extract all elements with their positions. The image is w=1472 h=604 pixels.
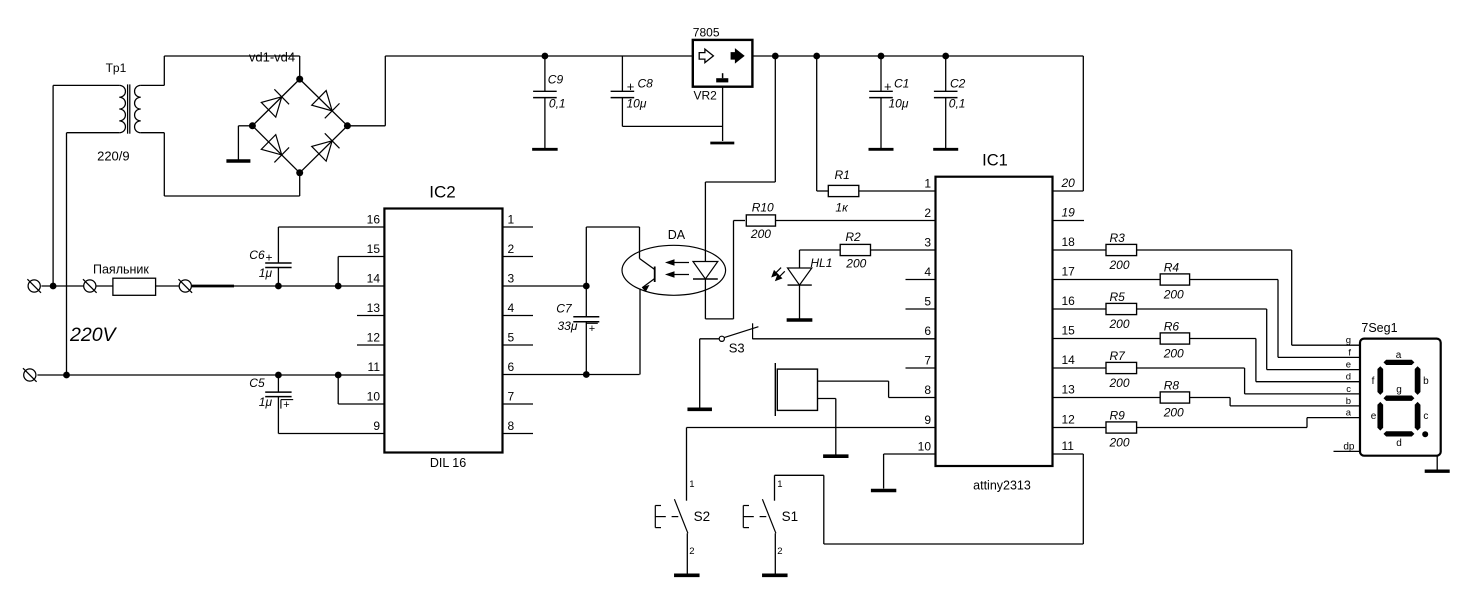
svg-text:15: 15 [1062,324,1076,338]
svg-text:220V: 220V [69,324,118,346]
svg-text:R4: R4 [1164,261,1180,275]
svg-text:14: 14 [1062,353,1076,367]
svg-text:g: g [1396,385,1402,396]
svg-text:c: c [1346,384,1351,395]
svg-text:7Seg1: 7Seg1 [1361,321,1397,335]
svg-text:200: 200 [1109,317,1130,331]
svg-text:1: 1 [689,479,694,490]
svg-text:19: 19 [1062,206,1076,220]
svg-text:220/9: 220/9 [97,149,130,164]
svg-text:200: 200 [845,257,866,271]
svg-text:6: 6 [924,324,931,338]
svg-text:200: 200 [1163,347,1184,361]
svg-text:12: 12 [1062,413,1076,427]
svg-text:3: 3 [924,236,931,250]
svg-text:R3: R3 [1110,231,1126,245]
svg-text:11: 11 [1062,439,1075,453]
svg-text:R7: R7 [1110,349,1127,363]
svg-text:C7: C7 [556,302,573,316]
svg-text:c: c [1423,411,1428,422]
svg-text:+: + [283,399,289,411]
svg-text:2: 2 [924,206,931,220]
svg-text:13: 13 [367,301,381,315]
svg-text:+: + [627,79,635,94]
svg-text:2: 2 [777,546,782,557]
svg-text:b: b [1423,376,1429,387]
svg-text:C1: C1 [894,77,909,91]
svg-text:e: e [1346,360,1351,371]
svg-text:C9: C9 [548,73,564,87]
svg-text:14: 14 [367,272,381,286]
svg-text:16: 16 [1062,294,1076,308]
svg-text:8: 8 [924,383,931,397]
svg-text:11: 11 [368,360,381,374]
svg-text:1: 1 [508,213,515,227]
svg-text:6: 6 [508,360,515,374]
svg-text:18: 18 [1062,235,1076,249]
svg-text:d: d [1346,372,1351,383]
svg-text:a: a [1346,408,1352,419]
svg-text:DIL 16: DIL 16 [430,456,466,470]
svg-text:R2: R2 [845,230,861,244]
svg-text:f: f [1348,347,1351,358]
svg-text:33μ: 33μ [558,319,578,333]
svg-text:C2: C2 [950,77,966,91]
svg-text:+: + [884,79,892,94]
svg-text:IC1: IC1 [982,151,1008,169]
svg-text:+: + [589,323,595,335]
svg-text:16: 16 [367,213,381,227]
svg-text:R6: R6 [1164,320,1180,334]
svg-text:f: f [1372,376,1375,387]
svg-text:R1: R1 [835,168,850,182]
svg-text:Паяльник: Паяльник [93,262,149,276]
svg-text:12: 12 [367,331,381,345]
svg-text:10: 10 [367,390,381,404]
svg-text:5: 5 [508,331,515,345]
svg-text:200: 200 [1109,258,1130,272]
svg-text:a: a [1396,350,1402,361]
svg-text:200: 200 [1163,406,1184,420]
svg-text:C6: C6 [249,248,265,262]
svg-text:8: 8 [508,419,515,433]
svg-text:5: 5 [924,295,931,309]
svg-text:17: 17 [1062,265,1076,279]
svg-text:0,1: 0,1 [949,97,966,111]
svg-text:S1: S1 [782,509,799,524]
svg-text:1μ: 1μ [259,266,273,280]
svg-text:200: 200 [1109,376,1130,390]
svg-text:4: 4 [508,301,515,315]
svg-text:200: 200 [1163,288,1184,302]
svg-text:3: 3 [508,272,515,286]
svg-text:DA: DA [668,228,686,242]
svg-text:4: 4 [924,265,931,279]
svg-text:13: 13 [1062,383,1076,397]
svg-text:attiny2313: attiny2313 [973,479,1031,493]
svg-text:dp: dp [1343,441,1355,452]
svg-text:S2: S2 [694,509,711,524]
svg-text:R8: R8 [1164,379,1180,393]
svg-text:0,1: 0,1 [549,97,566,111]
svg-text:1: 1 [924,177,931,191]
svg-text:10μ: 10μ [627,97,647,111]
svg-text:g: g [1346,335,1351,346]
svg-text:2: 2 [689,546,694,557]
svg-text:b: b [1346,396,1351,407]
svg-text:d: d [1396,438,1402,449]
svg-text:+: + [266,251,273,265]
svg-text:R5: R5 [1110,290,1126,304]
svg-text:Tp1: Tp1 [106,61,127,75]
svg-text:R9: R9 [1110,409,1126,423]
svg-text:7: 7 [924,354,931,368]
svg-text:1к: 1к [835,201,849,215]
svg-text:vd1-vd4: vd1-vd4 [249,49,295,64]
svg-text:10: 10 [918,440,932,454]
svg-text:HL1: HL1 [810,256,832,270]
svg-text:C5: C5 [249,376,265,390]
svg-text:9: 9 [924,413,931,427]
svg-text:7: 7 [508,390,515,404]
svg-text:9: 9 [373,419,380,433]
svg-text:7805: 7805 [693,25,720,39]
svg-text:1: 1 [777,479,782,490]
svg-text:200: 200 [750,227,771,241]
svg-text:1μ: 1μ [259,395,273,409]
svg-text:200: 200 [1109,436,1130,450]
svg-text:R10: R10 [752,201,774,215]
svg-text:S3: S3 [729,341,745,356]
svg-text:10μ: 10μ [889,97,909,111]
svg-text:C8: C8 [638,77,654,91]
svg-text:20: 20 [1061,176,1076,190]
svg-text:IC2: IC2 [429,183,455,202]
svg-text:15: 15 [367,242,381,256]
svg-text:e: e [1371,411,1377,422]
svg-text:VR2: VR2 [694,88,718,102]
svg-text:2: 2 [508,242,515,256]
